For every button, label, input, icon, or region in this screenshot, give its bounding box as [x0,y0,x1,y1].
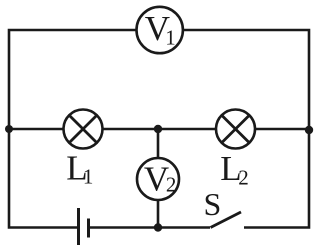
svg-text:2: 2 [166,172,177,196]
svg-text:2: 2 [238,165,249,189]
svg-text:1: 1 [83,164,94,188]
svg-text:1: 1 [165,25,176,49]
svg-text:S: S [204,186,222,222]
